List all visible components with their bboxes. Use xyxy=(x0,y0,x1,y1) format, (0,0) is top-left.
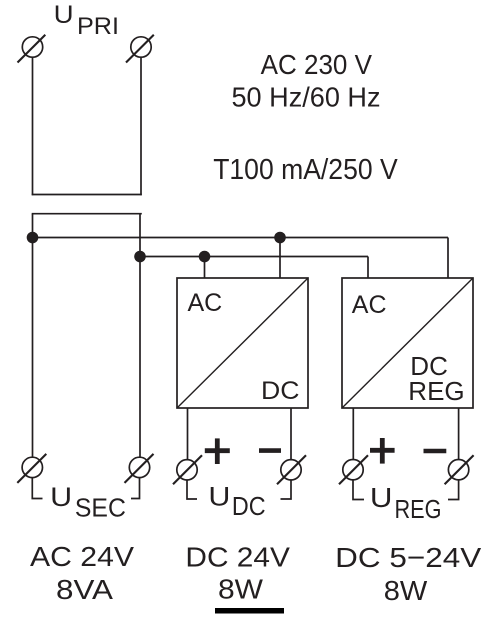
wire stub into U1 left xyxy=(204,257,206,279)
svg-text:AC: AC xyxy=(188,289,223,317)
svg-text:REG: REG xyxy=(395,494,442,524)
svg-text:U: U xyxy=(370,482,393,513)
bracket under X6 xyxy=(281,480,292,499)
junction dot A xyxy=(27,232,39,244)
svg-text:U: U xyxy=(50,482,72,512)
wire net L1 horizontal xyxy=(33,237,449,239)
wire stub into U1 right xyxy=(279,238,281,279)
wire primary left vertical xyxy=(32,57,34,195)
wire U1 output right xyxy=(290,408,292,460)
svg-text:PRI: PRI xyxy=(77,13,119,40)
label U_REG xyxy=(370,482,442,524)
wire primary right vertical xyxy=(140,57,142,195)
label U_DC xyxy=(208,481,265,520)
svg-text:T100 mA/250 V: T100 mA/250 V xyxy=(213,154,398,186)
converter U2 diagonal xyxy=(342,278,473,408)
converter U1 diagonal xyxy=(177,278,308,408)
bracket under X7 xyxy=(353,480,364,500)
converter U2 box xyxy=(342,278,473,408)
svg-text:AC 230 V: AC 230 V xyxy=(261,49,373,80)
terminal X4 (SEC right) xyxy=(125,454,154,483)
plus sign UDC xyxy=(205,438,230,464)
terminal X7 (REG plus) xyxy=(339,455,368,484)
bracket under X3 xyxy=(32,478,42,499)
svg-text:8W: 8W xyxy=(384,575,428,606)
wire net L2 drop to U2 xyxy=(367,257,369,279)
svg-text:DC 24V: DC 24V xyxy=(185,542,290,573)
converter U1 box xyxy=(177,278,308,408)
bracket under X8 xyxy=(448,480,459,500)
svg-text:U: U xyxy=(54,1,74,29)
svg-text:U: U xyxy=(208,481,230,511)
junction dot C xyxy=(199,251,211,263)
svg-text:DC: DC xyxy=(232,491,266,521)
label U_SEC xyxy=(50,482,126,522)
wire U2 output right xyxy=(458,408,460,460)
plus sign UREG xyxy=(370,438,395,464)
svg-text:8W: 8W xyxy=(218,574,264,605)
svg-text:50 Hz/60 Hz: 50 Hz/60 Hz xyxy=(232,81,381,112)
transformer T1 primary bar xyxy=(32,194,142,196)
wire net L1 drop to U2 xyxy=(447,238,449,279)
transformer T1 secondary bar xyxy=(32,213,142,215)
terminal X3 (SEC left) xyxy=(17,454,46,483)
terminal X6 (DC minus) xyxy=(277,455,306,484)
bracket under X4 xyxy=(131,478,140,499)
terminal X1 (primary left) xyxy=(18,35,46,63)
svg-text:8VA: 8VA xyxy=(56,574,113,605)
terminal X8 (REG minus) xyxy=(445,455,474,484)
svg-text:DC: DC xyxy=(261,377,300,405)
bottom black bar xyxy=(215,608,284,614)
minus sign UDC xyxy=(259,448,281,453)
svg-text:REG: REG xyxy=(408,376,464,406)
svg-text:DC 5−24V: DC 5−24V xyxy=(335,542,481,573)
minus sign UREG xyxy=(424,449,447,454)
bracket under X5 xyxy=(187,480,197,499)
svg-text:AC 24V: AC 24V xyxy=(30,541,134,572)
label U_PRI xyxy=(54,1,119,40)
terminal X2 (primary right) xyxy=(126,35,154,63)
wire secondary left vertical xyxy=(32,214,34,458)
svg-text:AC: AC xyxy=(352,291,387,319)
wire secondary right vertical xyxy=(139,214,141,458)
wire U1 output left xyxy=(187,408,189,460)
junction dot B xyxy=(134,251,146,263)
svg-text:SEC: SEC xyxy=(75,493,126,523)
wire net L2 horizontal xyxy=(140,256,368,258)
junction dot D xyxy=(274,232,286,244)
terminal X5 (DC plus) xyxy=(173,455,202,484)
wire U2 output left xyxy=(352,408,354,460)
